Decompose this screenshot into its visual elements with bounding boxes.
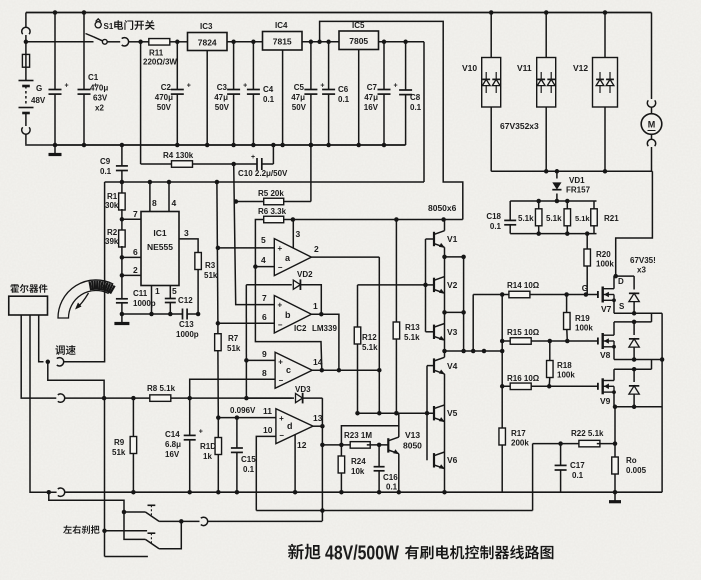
wire comparator b output [311,314,339,369]
svg-text:R1: R1 [107,192,118,201]
wire gate drive rail [445,350,503,352]
svg-text:+: + [278,301,283,310]
svg-text:67V352x3: 67V352x3 [500,121,539,131]
svg-text:R13: R13 [405,323,420,332]
wire V9 source row [613,392,615,407]
wire comparator c - input [190,379,275,398]
svg-text:6.8μ: 6.8μ [165,440,181,449]
svg-text:LM339: LM339 [312,324,337,333]
wire 5V riser down to 5V rail [423,42,425,182]
transistor V3 [426,331,435,333]
wire R22 feedback drop [532,444,534,511]
wire upper bases column [358,284,426,286]
svg-text:d: d [287,421,293,431]
wire C10 to ground rail [272,145,274,164]
wire V1 emitter tap [445,256,464,258]
resistor R14 10ohm [509,291,530,298]
svg-text:R16 10Ω: R16 10Ω [507,374,540,383]
wire comparator a - input [255,266,274,268]
svg-text:R2: R2 [107,228,118,237]
resistor R15 10ohm [510,338,531,345]
mosfet V8 [502,340,598,342]
svg-text:R24: R24 [351,457,366,466]
svg-text:x2: x2 [95,104,104,113]
svg-text:IC2: IC2 [294,324,307,333]
resistor R4 130k [141,163,172,165]
svg-text:0.1: 0.1 [410,103,422,112]
capacitor C16 0.1 [378,445,380,467]
ground (power output) [613,490,618,495]
svg-text:100k: 100k [557,371,575,380]
wire V8 source row [613,347,615,360]
diode V7 flyback [633,276,635,289]
op-amp comparator IC2a [274,239,311,276]
wire 5V rail [105,181,424,183]
svg-text:C2: C2 [161,83,172,92]
svg-text:14: 14 [313,357,323,367]
wire brake common column [104,398,106,556]
switch S1 electric door switch [86,34,94,37]
wire R14 loop [472,295,474,352]
wire comparator a + input [218,247,274,249]
node pin6 [120,255,125,260]
svg-text:12: 12 [297,440,307,450]
ic IC1 NE555 [141,212,179,286]
wire comparator a output [311,256,379,258]
svg-text:0.1: 0.1 [100,167,112,176]
wire IC4 ground pin [282,50,284,145]
wire R4/C10/R5 node column [234,164,275,305]
connector bottom rail [58,488,65,496]
motor M [651,107,653,114]
svg-text:V6: V6 [447,455,458,465]
label title part 2 [405,545,554,559]
diode V8 flyback [633,322,635,335]
label brake levers [63,525,99,534]
capacitor C1 (second of x2) [83,13,85,90]
wire pin 12 to ground rail [294,435,296,492]
svg-text:V13: V13 [405,430,420,440]
svg-text:1000p: 1000p [176,330,199,339]
svg-text:0.1: 0.1 [572,471,584,480]
svg-text:G: G [36,84,42,93]
node pin2 [120,273,125,278]
svg-text:8050x6: 8050x6 [428,203,457,213]
wire hysteresis loop pin4 to c output [255,267,321,370]
svg-text:100k: 100k [596,260,614,269]
svg-text:8: 8 [152,198,157,208]
connector battery negative [25,113,27,126]
resistor R7 51k [217,323,219,334]
svg-text:R15 10Ω: R15 10Ω [507,328,540,337]
svg-text:VD2: VD2 [297,270,313,279]
wire pin 3 [179,239,198,253]
svg-text:+: + [65,83,69,90]
resistor R8 5.1k [150,395,171,402]
wire comparator c + input [246,359,275,361]
wire R11 to IC3 [177,41,187,43]
svg-text:2: 2 [314,244,319,254]
transistor V6 [433,453,435,467]
wire 48V feed to V7 drain [616,171,653,276]
svg-text:7: 7 [262,293,267,303]
svg-text:−: − [278,263,283,272]
svg-text:200k: 200k [511,439,529,448]
svg-text:5.1k: 5.1k [518,214,534,223]
wire IC3 ground pin [206,51,208,146]
label title part 1 [288,544,321,560]
capacitor C11 1000p [121,275,123,298]
capacitor C6 0.1 [328,42,330,90]
transistor V4 [427,365,434,367]
capacitor C1 (first of x2) [54,13,56,90]
resistor R5 20k [234,199,239,204]
regulator IC3 7824 [188,33,228,51]
svg-text:+: + [279,414,284,423]
resistor R24 10k [340,445,342,456]
svg-text:7824: 7824 [198,38,217,48]
resistor R16 10ohm [510,383,531,390]
svg-text:b: b [285,310,291,320]
svg-text:0.1: 0.1 [386,483,398,492]
svg-text:0.1: 0.1 [263,95,275,104]
wire brake to comparator [207,520,322,522]
svg-text:51k: 51k [112,448,126,457]
wire right loop 1 [463,257,465,351]
svg-text:C18: C18 [486,212,501,221]
wire V13 emitter [398,454,400,493]
wire switch2 fixed contact [105,530,148,532]
svg-text:1: 1 [313,301,318,311]
svg-text:R18: R18 [557,361,572,370]
resistor R21 5.1k (3) [593,201,595,209]
wire V8 drain row [613,322,615,335]
resistor R13 5.1k [395,220,397,323]
svg-text:4: 4 [172,198,177,208]
capacitor C9 0.1 [121,145,123,166]
wire IC3 out to IC4 [227,41,263,43]
wire bottom ground rail [30,491,57,493]
resistor R11 220ohm/3W [141,41,149,43]
svg-text:C14: C14 [165,430,180,439]
op-amp comparator IC2d [276,409,313,444]
svg-text:1000p: 1000p [133,299,156,308]
svg-text:470μ: 470μ [155,93,173,102]
regulator IC5 7805 [339,31,379,50]
wire R8 row [64,397,291,399]
wire V8S to V9D jog [651,360,653,370]
svg-text:2: 2 [133,265,138,275]
node C11 bottom / ground [120,312,125,317]
svg-text:470μ: 470μ [90,84,108,93]
regulator IC4 7815 [263,32,303,51]
connector battery positive [25,13,27,29]
wire V7S to V8D jog [651,313,653,322]
wire comparator d - input pin 10 [256,436,276,510]
wire motor branch from top rail [651,13,653,100]
wire V7 drain row [613,276,615,289]
svg-text:0.1: 0.1 [338,95,350,104]
svg-text:5.1k: 5.1k [362,343,378,352]
svg-text:+: + [394,83,398,90]
svg-text:16V: 16V [364,103,379,112]
svg-text:V11: V11 [517,63,532,73]
diode VD2 [246,284,291,286]
svg-text:R21: R21 [604,214,619,223]
wire pin 6 [122,256,141,258]
svg-text:C3: C3 [217,83,228,92]
connector hall signal [58,394,65,402]
mosfet V7 [473,294,598,296]
wire hall lead 1 [21,315,56,398]
wire snubber top row [510,200,596,202]
svg-text:R8 5.1k: R8 5.1k [147,384,176,393]
wire emitter chain V1-V3 [444,247,446,351]
svg-text:C4: C4 [263,85,274,94]
svg-text:C10 2.2μ/50V: C10 2.2μ/50V [238,169,288,178]
capacitor C4 0.1 [252,42,254,90]
capacitor C12 [169,286,171,299]
resistor R10 1k [217,418,219,438]
wire V2 emitter tap [445,311,464,313]
diode V9 flyback [633,369,635,382]
fuse [25,42,27,55]
svg-text:10: 10 [263,425,273,435]
resistor R3 51k [195,253,202,270]
svg-text:3: 3 [184,228,189,238]
connector in switch row [122,38,129,46]
svg-text:5.1k: 5.1k [575,214,590,223]
node C13/R3 [196,312,201,317]
svg-text:Ro: Ro [626,456,637,465]
svg-text:51k: 51k [227,344,241,353]
svg-text:47μ: 47μ [364,93,378,102]
svg-text:IC1: IC1 [153,228,167,238]
brake switch 2 [124,512,145,539]
wire 5V feed to throttle [63,182,104,362]
wire IC5 out 5V [379,41,425,43]
svg-text:10k: 10k [351,467,365,476]
hall sensor box [9,296,48,315]
wire throttle node to R8 row [48,362,104,398]
resistor R23 1M [350,442,370,449]
resistor R17 200k [499,428,506,445]
resistor R9 51k [132,398,134,437]
svg-text:50V: 50V [292,103,307,112]
svg-text:5.1k: 5.1k [404,333,420,342]
svg-text:8050: 8050 [403,441,422,451]
transistor V1 [426,238,435,240]
svg-text:8: 8 [262,368,267,378]
wire pin3 vcc stub [292,220,294,249]
node R4 tap [138,40,143,45]
svg-text:x3: x3 [637,266,646,275]
svg-text:C11: C11 [133,289,148,298]
wire ground rail [55,144,406,146]
svg-text:V4: V4 [447,361,458,371]
transistor V13 8050 [387,438,389,452]
svg-text:C13: C13 [179,320,194,329]
svg-text:−: − [279,376,284,385]
svg-text:V2: V2 [447,280,458,290]
resistor R6 3.3k [255,220,267,267]
svg-text:V3: V3 [447,327,458,337]
wire R4 sense riser [140,42,142,164]
svg-text:VD1: VD1 [569,176,585,185]
label hall sensor [10,284,47,293]
svg-text:R12: R12 [362,333,377,342]
resistor 5.1k (2) [566,201,568,209]
svg-text:+: + [278,357,283,366]
svg-text:+: + [199,428,203,435]
svg-text:VD3: VD3 [295,385,311,394]
wire comparator a output drop [378,257,380,413]
capacitor C18 0.1 [509,201,511,220]
svg-text:11: 11 [263,406,272,416]
svg-text:6: 6 [133,247,138,257]
svg-text:3: 3 [296,229,301,239]
svg-text:IC3: IC3 [200,22,213,31]
svg-text:C12: C12 [178,296,193,305]
wire battery negative to ground rail [26,143,55,146]
ground (battery) [54,145,56,154]
svg-text:c: c [286,365,291,375]
svg-text:9: 9 [262,349,267,359]
transistor V5 [433,406,435,420]
svg-text:39k: 39k [105,237,119,246]
svg-text:V8: V8 [600,350,611,360]
wire pin 7 [122,218,141,220]
connector motor - [651,134,653,140]
node brake feed [47,490,52,495]
node brake output [179,519,184,524]
svg-text:R22 5.1k: R22 5.1k [571,429,604,438]
node pin7 [120,217,125,222]
svg-text:R7: R7 [228,334,239,343]
wire V13 collector loop [341,413,398,445]
resistor R12 5.1k [357,285,359,327]
svg-text:C9: C9 [100,157,111,166]
wire 15V comparator pull-up row [284,219,463,221]
label S1 switch name [114,20,155,30]
resistor 5.1k (1) [538,201,540,209]
wire diode return vertical [661,313,663,492]
svg-text:0.096V: 0.096V [230,406,256,415]
resistor R20 100k [586,234,588,249]
svg-text:47μ: 47μ [291,93,305,102]
node pin4 [253,264,258,269]
resistor R22 5.1k [533,443,582,445]
svg-text:48V: 48V [31,96,46,105]
brake switch 1 [122,510,127,515]
svg-text:+: + [278,244,283,253]
wire pin 1 [151,286,153,315]
wire 0.096V row pin 11 [218,417,276,419]
svg-text:13: 13 [313,413,323,423]
svg-text:S: S [619,302,625,311]
svg-text:V7: V7 [601,304,612,314]
svg-text:R3: R3 [205,261,216,270]
capacitor C2 470u 50V [176,42,178,90]
diode VD3 [246,397,294,399]
wire IC5 ground pin [358,50,360,146]
svg-text:R19: R19 [575,314,590,323]
svg-text:C8: C8 [410,93,421,102]
wire pin 4 [168,182,170,212]
svg-text:C16: C16 [383,473,398,482]
wire hall lead 3 [39,315,44,362]
resistor R19 100k [566,295,568,314]
svg-text:5: 5 [261,235,266,245]
wire V1 collector [444,220,446,231]
capacitor C5 47u 50V [310,42,312,90]
svg-text:S1: S1 [104,22,114,31]
svg-text:R20: R20 [596,250,611,259]
node R4/C10 [231,162,236,167]
svg-text:R23 1M: R23 1M [344,431,372,440]
diode module V10 67V352 [489,10,494,15]
svg-text:IC5: IC5 [352,21,365,30]
svg-text:+: + [251,154,255,161]
svg-text:−: − [278,321,283,330]
node brake switch 2 [102,529,107,534]
wire feedback column x=322 [321,398,323,521]
wire R23 row [322,444,353,446]
svg-text:63V: 63V [93,94,108,103]
svg-text:C17: C17 [570,461,585,470]
capacitor C8 0.1 [405,42,407,90]
capacitor C15 0.1 [236,418,238,448]
svg-text:R1D: R1D [200,442,216,451]
magnet rotor arc [58,280,113,318]
svg-text:0.1: 0.1 [490,222,502,231]
svg-text:7: 7 [133,209,138,219]
svg-text:V1: V1 [447,234,458,244]
svg-text:1: 1 [155,286,160,296]
svg-text:C1: C1 [88,73,99,82]
wire IC4 out / 15V riser over IC5 [302,41,339,43]
svg-text:C15: C15 [241,455,256,464]
resistor R1 30k [121,182,123,194]
wire comparator b - input [218,322,274,324]
svg-text:V12: V12 [573,63,588,73]
svg-text:5: 5 [172,286,177,296]
wire pin 8 [149,182,151,212]
wire current limit row [256,510,532,512]
node throttle [46,360,51,365]
svg-text:48V/500W: 48V/500W [325,543,399,565]
svg-text:6: 6 [262,312,267,322]
svg-text:1k: 1k [203,452,212,461]
icon bell (key switch) [95,22,101,28]
wire gate ladder vertical [501,295,503,428]
wire lower base row [358,412,435,414]
svg-text:G: G [582,284,588,293]
capacitor C17 0.1 [560,444,562,466]
wire top rail +48V [26,12,652,14]
transistor V2 [426,284,435,286]
svg-text:R5 20k: R5 20k [258,189,284,198]
svg-text:+: + [187,83,191,90]
svg-text:100k: 100k [575,324,593,333]
svg-text:R9: R9 [114,438,125,447]
wire switch row [26,41,94,43]
ground (NE555) [121,314,123,323]
diode module V12 67V352 [603,10,608,15]
wire hall lead 2 ground [30,315,49,492]
node pin6 tap [216,321,221,326]
wire VD2 left / pin9 column [245,285,247,398]
